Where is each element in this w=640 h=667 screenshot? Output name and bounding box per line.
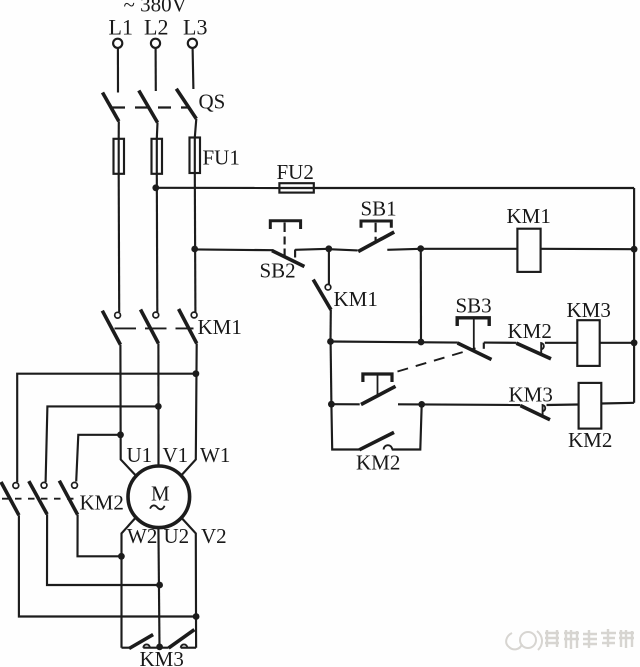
svg-text:QS: QS bbox=[199, 90, 226, 114]
wire L2 drop to QS bbox=[155, 48, 157, 91]
svg-text:KM1: KM1 bbox=[198, 315, 242, 339]
wire KM2 NC to KM3 coil bbox=[545, 342, 577, 344]
svg-text:KM2: KM2 bbox=[80, 491, 124, 515]
wire L3 drop to QS bbox=[192, 48, 195, 89]
wire rail2 left segment bbox=[331, 342, 458, 343]
pushbutton SB3 NC blade bbox=[458, 343, 492, 360]
switch QS mechanical link (dashed) bbox=[112, 106, 189, 108]
svg-text:V2: V2 bbox=[201, 524, 227, 548]
pushbutton SB3 fixed terminal tick bbox=[483, 343, 485, 349]
svg-text:SB1: SB1 bbox=[361, 197, 397, 221]
wire QS2 to FU1 bbox=[156, 123, 159, 139]
contact KM3 pole2 fixed arc bbox=[181, 644, 188, 647]
wire junction down to KM1 aux bbox=[328, 249, 330, 284]
contact KM1 main pole2 circle bbox=[153, 312, 159, 318]
wire phase3 FU1 to KM1 contact bbox=[194, 173, 197, 312]
wire junction to SB1 bbox=[329, 249, 358, 250]
coil KM1 bbox=[517, 229, 540, 272]
svg-text:KM2: KM2 bbox=[568, 428, 612, 452]
contact KM2 main pole1 blade bbox=[1, 482, 19, 515]
svg-text:KM3: KM3 bbox=[567, 298, 611, 322]
svg-text:L3: L3 bbox=[183, 15, 207, 40]
junction rail3 left bbox=[328, 401, 335, 408]
contact KM2 NC blade (rail2) bbox=[516, 343, 551, 359]
wire SB2 to junction bbox=[295, 249, 329, 250]
motor tilde bbox=[150, 505, 165, 509]
watermark logo bbox=[506, 631, 542, 650]
contact KM1 main pole1 blade bbox=[102, 311, 120, 345]
wire rail3 to SB3 NO bbox=[331, 403, 359, 405]
contact KM1 main pole2 blade bbox=[141, 310, 159, 344]
svg-text:L2: L2 bbox=[144, 15, 168, 40]
junction W1 tap bbox=[193, 370, 200, 377]
wire KM2 pole1 down and right to V2 bbox=[19, 515, 196, 616]
junction rail2 mid bbox=[418, 339, 425, 346]
switch QS pole 3 blade bbox=[176, 89, 196, 119]
link SB3 dashed mechanical bbox=[398, 348, 476, 371]
wire phase3 KM1 to motor bbox=[181, 343, 197, 475]
wire SB3 to KM2 NC bbox=[484, 342, 517, 344]
wire right bus vertical bbox=[633, 188, 635, 403]
junction U2 node bbox=[156, 582, 163, 589]
wire KM1 coil to right bus bbox=[541, 248, 635, 251]
wire KM2 coil to right bus bbox=[601, 402, 634, 405]
coil KM3 bbox=[577, 320, 599, 366]
wire V1 tap to left bbox=[46, 406, 159, 482]
svg-text:U2: U2 bbox=[164, 524, 190, 548]
svg-text:KM2: KM2 bbox=[356, 451, 400, 475]
junction phase2 / control feed bbox=[152, 184, 159, 191]
wire QS3 to FU1 bbox=[195, 119, 197, 138]
contact KM2 main pole3 blade bbox=[59, 481, 77, 515]
wire QS1 to FU1 bbox=[118, 121, 120, 139]
contact KM1 main pole3 blade bbox=[179, 309, 197, 343]
svg-text:M: M bbox=[151, 482, 170, 506]
contact KM2 NO aux blade bbox=[359, 432, 394, 449]
wire loop left vertical bbox=[331, 404, 359, 449]
wire rail1 to KM1 coil bbox=[421, 248, 518, 250]
junction star point U2 bbox=[156, 644, 163, 651]
wire phase2 KM1 to motor bbox=[157, 343, 159, 466]
wire KM3 star bar right bbox=[181, 647, 196, 649]
wire KM3 NC to KM2 coil bbox=[547, 403, 579, 406]
fuse FU1 phase 3 bbox=[190, 138, 201, 174]
pushbutton SB1 actuator bracket bbox=[361, 221, 391, 228]
wire W1 tap to left bbox=[17, 374, 196, 483]
svg-text:W2: W2 bbox=[127, 524, 157, 548]
svg-text:L1: L1 bbox=[109, 15, 133, 40]
link KM1 main dashed bbox=[115, 327, 194, 329]
wire SB1 junction down to rail2 bbox=[420, 249, 422, 342]
contact KM2 main pole2 blade bbox=[29, 481, 47, 514]
wire KM1 aux to rail2 bbox=[329, 310, 331, 342]
wire KM3 star bar mid bbox=[143, 647, 168, 649]
junction node after SB1 bbox=[417, 245, 424, 252]
svg-text:U1: U1 bbox=[127, 443, 153, 467]
wire V2 motor to KM3 bbox=[181, 518, 196, 648]
contact KM3 NC blade (rail3) bbox=[521, 406, 551, 420]
wire KM2 pole2 down and right to U2 bbox=[47, 514, 160, 585]
coil KM2 bbox=[579, 383, 602, 429]
junction U1 tap bbox=[117, 431, 124, 438]
wire FU2 to right bus bbox=[314, 187, 634, 189]
wire phase1 KM1 to motor bbox=[120, 345, 135, 476]
svg-text:FU2: FU2 bbox=[277, 160, 314, 184]
contact KM2 NO aux fixed arc bbox=[384, 445, 393, 449]
pushbutton SB2 fixed terminal tick bbox=[294, 250, 296, 258]
pushbutton SB2 actuator bracket bbox=[270, 221, 300, 229]
wire KM3 star bar left bbox=[122, 647, 130, 649]
pushbutton SB2 stem (dashed) bbox=[284, 223, 286, 258]
junction V2 node bbox=[193, 613, 200, 620]
junction W2 node bbox=[118, 553, 125, 560]
junction right bus rail2 bbox=[631, 339, 638, 346]
switch QS pole 2 blade bbox=[139, 91, 158, 123]
fuse FU1 phase 1 bbox=[114, 139, 125, 174]
wire control feed to FU2 bbox=[156, 187, 280, 189]
wire KM3 coil to right bus bbox=[600, 342, 634, 344]
wire KM2 pole3 down and right to W2 bbox=[78, 515, 122, 557]
contact KM2 main pole2 circle bbox=[41, 482, 47, 488]
pushbutton SB3 actuator bracket bbox=[457, 318, 489, 326]
contact KM1 aux fixed circle bbox=[325, 284, 331, 290]
fuse FU2 bbox=[279, 183, 313, 192]
link KM2 main dashed bbox=[2, 498, 76, 500]
wire rail1 start to SB2 bbox=[195, 248, 274, 251]
wire rail3 to KM3 NC bbox=[422, 403, 521, 406]
contact KM1 main pole3 circle bbox=[191, 312, 197, 318]
junction rail2 left bbox=[327, 338, 334, 345]
junction right bus rail1 bbox=[631, 246, 638, 253]
contact KM2 main pole3 circle bbox=[72, 482, 78, 488]
wire U1 tap to left bbox=[76, 435, 120, 482]
contact KM3 pole2 blade bbox=[169, 630, 195, 648]
contact KM3 pole1 fixed arc bbox=[143, 644, 150, 647]
pushbutton SB1 stem (dashed) bbox=[375, 223, 377, 242]
switch QS pole 1 blade bbox=[103, 93, 119, 122]
contact KM3 pole1 blade bbox=[129, 635, 153, 649]
svg-text:SB3: SB3 bbox=[456, 294, 492, 318]
svg-text:V1: V1 bbox=[163, 443, 189, 467]
svg-text:FU1: FU1 bbox=[203, 146, 240, 170]
pushbutton SB3 NO blade bbox=[361, 386, 396, 404]
contact KM2 main pole1 circle bbox=[13, 483, 19, 489]
junction phase3 / rail1 feed bbox=[191, 246, 198, 253]
pushbutton SB3 NO stem bbox=[377, 376, 379, 397]
junction rail3 mid bbox=[418, 401, 425, 408]
svg-text:KM1: KM1 bbox=[507, 204, 551, 228]
svg-text:KM2: KM2 bbox=[508, 319, 552, 343]
svg-text:KM1: KM1 bbox=[334, 287, 378, 311]
motor M circle bbox=[128, 466, 190, 528]
svg-text:KM3: KM3 bbox=[140, 647, 184, 667]
wire loop bottom right bbox=[392, 404, 422, 449]
wire phase2 FU1 to KM1 contact bbox=[156, 174, 159, 312]
contact KM3 NC fixed hook bbox=[543, 405, 546, 415]
wire U2 motor to KM3 bbox=[158, 527, 159, 647]
fuse FU1 phase 2 bbox=[152, 139, 163, 174]
contact KM2 NC fixed hook bbox=[541, 343, 544, 354]
watermark text strokes bbox=[545, 629, 634, 649]
pushbutton SB3 stem bbox=[473, 320, 475, 353]
wire rail2 left down to rail3 bbox=[330, 342, 333, 405]
pushbutton SB1 NO blade bbox=[358, 232, 394, 252]
svg-text:W1: W1 bbox=[200, 443, 230, 467]
junction V1 tap bbox=[155, 403, 162, 410]
wire L1 drop to QS bbox=[117, 48, 119, 93]
svg-text:KM3: KM3 bbox=[509, 383, 553, 407]
wire W2 motor to KM3 bbox=[122, 518, 136, 648]
svg-text:SB2: SB2 bbox=[260, 259, 296, 283]
wire SB3 NO to junction bbox=[398, 403, 422, 405]
contact KM1 aux NO blade bbox=[313, 280, 331, 310]
wire phase1 FU1 to KM1 contact bbox=[118, 174, 121, 312]
wire SB1 to junction bbox=[387, 249, 420, 250]
contact KM1 main pole1 circle bbox=[115, 312, 121, 318]
junction node after SB2 bbox=[325, 245, 332, 252]
pushbutton SB2 NC blade bbox=[272, 251, 304, 267]
pushbutton SB3 NO bracket bbox=[363, 374, 392, 382]
